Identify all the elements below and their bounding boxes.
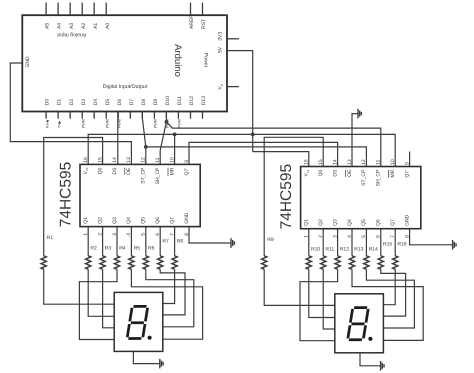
svg-text:R10: R10: [311, 247, 320, 253]
resistor R11: [321, 256, 326, 269]
shift register U3 (74HC595): [301, 167, 421, 229]
svg-text:R4: R4: [119, 245, 126, 251]
wire: U3 pin13 OE to local ground: [352, 114, 358, 167]
svg-text:D4: D4: [93, 99, 99, 106]
svg-text:D0: D0: [45, 99, 51, 106]
resistor R8: [172, 256, 177, 269]
svg-text:GND: GND: [25, 56, 31, 68]
resistor R1: [41, 256, 46, 269]
wire: U2 pin7 to R8: [174, 227, 176, 256]
resistor R7: [158, 256, 163, 269]
svg-text:ST_CP: ST_CP: [141, 167, 147, 184]
ground: U3 OE: [357, 109, 359, 119]
wire: R7 to DS1 right pin 2: [160, 269, 185, 315]
svg-text:12: 12: [141, 157, 147, 163]
svg-text:15: 15: [97, 157, 103, 163]
svg-text:RX◀: RX◀: [45, 120, 49, 128]
U1 pin A4: [57, 3, 59, 16]
7-segment display DS2: [335, 294, 384, 353]
svg-text:D8: D8: [141, 99, 147, 106]
wire: U2 pin1 to R2: [87, 227, 89, 256]
svg-text:R14: R14: [369, 247, 378, 253]
svg-text:D3: D3: [81, 99, 87, 106]
DS2 digit 8: [348, 308, 369, 340]
resistor R3: [100, 256, 105, 269]
resistor R6: [143, 256, 148, 269]
U1 pin D8: [141, 112, 143, 119]
resistor R14: [364, 256, 369, 269]
svg-text:RST: RST: [201, 19, 207, 29]
svg-text:13: 13: [126, 157, 132, 163]
resistor R10: [306, 256, 311, 269]
wire: U3 pin3 to R12: [337, 229, 339, 256]
wire: U2 pin8 GND to ground: [189, 227, 231, 243]
svg-text:12: 12: [361, 159, 367, 165]
U1 pin A5: [45, 3, 47, 16]
svg-text:D9: D9: [153, 99, 159, 106]
svg-text:16: 16: [83, 157, 89, 163]
wire: R6 to DS1 right pin 3: [146, 269, 194, 327]
ground: DS1: [159, 359, 161, 369]
svg-text:Q3: Q3: [332, 219, 338, 226]
U1 pin AREF: [190, 3, 192, 16]
U1 pin D3: [81, 112, 83, 119]
svg-text:6: 6: [376, 235, 382, 238]
wire: U2 pin9 stub (unused on U3): [409, 152, 411, 167]
svg-text:D10: D10: [165, 96, 171, 105]
U1 pin D9: [153, 112, 155, 119]
ground: U2 pin8: [230, 238, 232, 248]
U1 pin D11: [177, 112, 179, 119]
U1 pin D0: [45, 112, 47, 119]
svg-text:DS: DS: [332, 169, 338, 177]
svg-text:4: 4: [347, 235, 353, 238]
U1 pin A0: [105, 3, 107, 16]
svg-text:MR: MR: [169, 167, 175, 175]
U1 pin A2: [81, 3, 83, 16]
U1 pin D13: [202, 112, 204, 119]
wire: U2 pin15 Q0 to R1: [44, 138, 103, 256]
DS1 decimal point: [148, 336, 152, 340]
wire: D6 data to U2 pin14 DS: [117, 112, 119, 165]
svg-text:9: 9: [184, 160, 190, 163]
svg-text:Q6: Q6: [155, 217, 161, 224]
svg-text:10: 10: [390, 159, 396, 165]
U1 pin D7: [129, 112, 131, 119]
svg-text:PWM: PWM: [81, 119, 85, 128]
wire: DS2 common cathode to ground: [360, 353, 381, 366]
svg-text:Q7: Q7: [169, 217, 175, 224]
svg-text:R2: R2: [90, 245, 97, 251]
svg-text:14: 14: [332, 159, 338, 165]
svg-text:D2: D2: [69, 99, 75, 106]
svg-text:8: 8: [184, 233, 190, 236]
svg-text:A2: A2: [81, 23, 87, 29]
wire: 5V rail to U2 Vcc pin16 and MR pin10: [88, 134, 395, 166]
wire: D8 latch to U2 pin12 ST_CP: [142, 112, 146, 165]
svg-text:TX▶: TX▶: [57, 120, 61, 128]
wire: R5 to DS1 right pin 4: [131, 269, 202, 339]
svg-text:D5: D5: [105, 99, 111, 106]
wire: R10 to DS2 left pin 2: [309, 269, 335, 317]
wire: clock branch to U2 pin11 SH_CP: [160, 122, 166, 164]
svg-text:3V3: 3V3: [218, 32, 224, 41]
shift register U2 (74HC595): [80, 164, 200, 226]
U1 pin RST: [202, 3, 204, 16]
svg-text:Q4: Q4: [347, 219, 353, 226]
svg-text:3: 3: [332, 235, 338, 238]
svg-text:74HC595: 74HC595: [58, 162, 75, 228]
junction: 5V rail at U2 MR: [173, 133, 177, 137]
svg-text:A5: A5: [45, 23, 51, 29]
svg-text:Arduino: Arduino: [172, 44, 183, 77]
svg-text:8: 8: [404, 235, 410, 238]
wire: latch rail to U3 pin12 ST_CP: [146, 147, 367, 167]
svg-text:R8: R8: [177, 239, 184, 245]
wire: 5V net from U1 5V pin down right side: [227, 51, 253, 152]
svg-text:R15: R15: [383, 242, 392, 248]
svg-text:Q0: Q0: [97, 167, 103, 174]
U1 pin D6: [117, 112, 119, 119]
wire: R4 to DS1 left pin 4: [79, 269, 117, 339]
wire: U3 pin2 to R11: [322, 229, 324, 256]
U1 pin D5: [105, 112, 107, 119]
svg-text:Q5: Q5: [141, 217, 147, 224]
svg-text:R5: R5: [134, 245, 141, 251]
svg-text:AREF: AREF: [189, 16, 195, 29]
wire: U3 pin1 to R10: [308, 229, 310, 256]
Arduino board U1: [22, 15, 227, 111]
svg-text:R13: R13: [354, 247, 363, 253]
DS2 decimal point: [368, 337, 372, 341]
svg-text:R1: R1: [47, 235, 54, 241]
svg-text:Digital Input/Output: Digital Input/Output: [103, 84, 148, 90]
7-segment display DS1: [114, 292, 163, 351]
svg-text:2: 2: [318, 235, 324, 238]
svg-text:1: 1: [304, 235, 310, 238]
svg-text:15: 15: [318, 159, 324, 165]
resistor R2: [86, 256, 91, 269]
svg-text:5: 5: [141, 233, 147, 236]
svg-text:Power: Power: [203, 53, 209, 68]
svg-text:6: 6: [155, 233, 161, 236]
svg-text:1: 1: [83, 233, 89, 236]
svg-text:4: 4: [126, 233, 132, 236]
svg-text:R16: R16: [397, 242, 406, 248]
svg-text:D1: D1: [57, 99, 63, 106]
wire: R2 to DS1 left pin 2: [88, 269, 114, 316]
svg-text:Q1: Q1: [304, 219, 310, 226]
wire: U3 pin5 to R14: [365, 229, 367, 256]
DS1 digit 8: [127, 306, 148, 338]
svg-text:Q5: Q5: [361, 219, 367, 226]
wire: cascade U2 pin9 Q7S to U3 pin14 DS: [189, 142, 338, 166]
svg-text:Q1: Q1: [83, 217, 89, 224]
svg-text:Q7: Q7: [390, 219, 396, 226]
svg-text:R3: R3: [105, 245, 112, 251]
wire: U2 pin6 to R7: [159, 227, 161, 256]
wire: U2 pin4 to R5: [130, 227, 132, 256]
svg-text:A0: A0: [105, 23, 111, 29]
ground: U3 pin8: [452, 240, 454, 250]
svg-text:A1: A1: [93, 23, 99, 29]
svg-text:Q7’: Q7’: [404, 170, 410, 178]
U1 pin D4: [93, 112, 95, 119]
svg-text:74HC595: 74HC595: [278, 164, 295, 230]
svg-text:11: 11: [155, 157, 161, 162]
svg-text:A3: A3: [69, 23, 75, 29]
resistor R5: [129, 256, 134, 269]
resistor R4: [114, 256, 119, 269]
svg-text:GND: GND: [404, 214, 410, 226]
svg-text:Q4: Q4: [126, 217, 132, 224]
svg-text:D13: D13: [201, 96, 207, 105]
svg-text:ST_CP: ST_CP: [361, 169, 367, 186]
wire: U2 pin2 to R3: [102, 227, 104, 256]
U1 pin A3: [69, 3, 71, 16]
U1 pin D1: [57, 112, 59, 119]
svg-text:GND: GND: [184, 212, 190, 224]
wire: U3 pin7 to R16: [394, 229, 396, 256]
svg-text:R7: R7: [162, 239, 169, 245]
wire: R14 to DS2 right pin 3: [366, 269, 414, 328]
wire: R9 to DS2 left pin 1: [264, 269, 335, 305]
svg-text:Analog Input: Analog Input: [57, 31, 87, 37]
svg-text:OE: OE: [347, 169, 353, 177]
wire: R3 to DS1 left pin 3: [103, 269, 115, 328]
junction: 5V rail at vertical feed: [251, 133, 255, 137]
wire: R13 to DS2 right pin 4: [352, 269, 423, 340]
wire: R16 to DS2 right pin 1: [383, 269, 395, 304]
wire: U3 pin6 to R15: [380, 229, 382, 256]
wire: D10 clock stub: [165, 112, 167, 122]
resistor R13: [349, 256, 354, 269]
U1 pin D2: [69, 112, 71, 119]
wire: U2 pin5 to R6: [145, 227, 147, 256]
wire: R12 to DS2 left pin 4: [300, 269, 338, 340]
svg-text:D12: D12: [189, 96, 195, 105]
wire: DS1 common cathode to ground: [133, 351, 159, 363]
resistor R12: [335, 256, 340, 269]
wire: U3 pin15 Q0 to R9: [264, 137, 323, 256]
svg-text:5: 5: [361, 235, 367, 238]
svg-text:A4: A4: [57, 23, 63, 29]
wire: GND net from U1 GND to U2 pin13 OE: [10, 63, 131, 164]
resistor R9: [262, 256, 267, 269]
svg-text:SH_CP: SH_CP: [376, 169, 382, 186]
wire: U2 pin3 to R4: [116, 227, 118, 256]
svg-text:3: 3: [112, 233, 118, 236]
resistor R15: [378, 256, 383, 269]
svg-text:R6: R6: [148, 245, 155, 251]
wire: U3 pin4 to R13: [351, 229, 353, 256]
svg-text:Q3: Q3: [112, 217, 118, 224]
U1 pin 3V3: [227, 38, 239, 40]
ground: DS2: [380, 361, 382, 371]
wire: R1 to DS1 left pin 1: [44, 269, 115, 304]
wire: R15 to DS2 right pin 2: [381, 269, 406, 316]
svg-text:16: 16: [304, 159, 310, 165]
svg-text:SH_CP: SH_CP: [155, 167, 161, 184]
U1 pin A1: [93, 3, 95, 16]
wire: U2 pin10 MR stub: [174, 134, 176, 164]
wire: R11 to DS2 left pin 3: [323, 269, 335, 329]
svg-text:R9: R9: [267, 237, 274, 243]
wire: 5V branch to U3 Vcc pin16: [253, 152, 309, 167]
svg-text:MR: MR: [390, 169, 396, 177]
svg-text:Q2: Q2: [97, 217, 103, 224]
svg-text:R12: R12: [340, 247, 349, 253]
junction: latch at U2 pin12: [144, 145, 148, 149]
svg-text:D7: D7: [129, 99, 135, 106]
wire: U3 pin8 GND to ground: [410, 229, 453, 245]
svg-text:PWM: PWM: [154, 119, 158, 128]
svg-text:10: 10: [169, 157, 175, 163]
wire: clock branch rail to U3 pin11 SH_CP: [166, 122, 380, 167]
svg-text:Q0: Q0: [318, 169, 324, 176]
svg-text:R11: R11: [325, 247, 334, 253]
svg-text:OE: OE: [126, 167, 132, 175]
U1 pin D12: [190, 112, 192, 119]
U1 pin Vin: [227, 86, 239, 88]
svg-text:D11: D11: [177, 96, 183, 105]
svg-text:Q7’: Q7’: [184, 168, 190, 176]
U1 pin D10: [165, 112, 167, 119]
svg-text:PWM: PWM: [105, 119, 109, 128]
svg-text:DS: DS: [112, 167, 118, 175]
svg-text:7: 7: [390, 235, 396, 238]
svg-text:9: 9: [404, 162, 410, 165]
svg-text:7: 7: [169, 233, 175, 236]
svg-text:13: 13: [347, 159, 353, 165]
svg-text:2: 2: [97, 233, 103, 236]
wire: R8 to DS1 right pin 1: [163, 269, 175, 303]
svg-text:Q6: Q6: [376, 219, 382, 226]
svg-text:11: 11: [376, 159, 382, 164]
svg-text:PWM: PWM: [178, 119, 182, 128]
svg-text:14: 14: [112, 157, 118, 163]
svg-text:5V: 5V: [218, 46, 224, 53]
svg-text:Q2: Q2: [318, 219, 324, 226]
junction: clock split at D10: [165, 120, 169, 124]
svg-text:D6: D6: [117, 99, 123, 106]
resistor R16: [393, 256, 398, 269]
